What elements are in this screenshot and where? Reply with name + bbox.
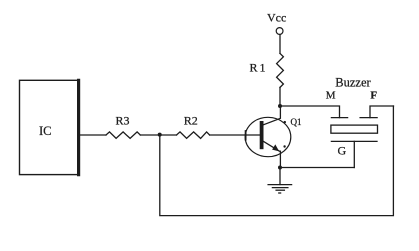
buzzer piezo rectangle <box>331 125 378 133</box>
transistor Q1 base bar <box>260 123 264 147</box>
wire R2 to transistor base <box>210 134 260 136</box>
junction dot R3/R2 <box>158 133 162 137</box>
wire G plate down <box>353 141 355 167</box>
svg-text:Buzzer: Buzzer <box>335 75 371 89</box>
IC box <box>20 80 80 174</box>
wire R3 to junction to R2 <box>140 134 176 136</box>
dot on circle upper right <box>284 121 286 123</box>
svg-text:F: F <box>370 90 377 102</box>
ground line 1 <box>268 184 292 186</box>
ground line 4 <box>279 192 281 194</box>
resistor R1 <box>277 53 284 87</box>
ground line 2 <box>272 187 288 189</box>
resistor R3 <box>106 132 140 139</box>
wire Vcc to R1 <box>279 35 281 54</box>
transistor Q1 emitter arrow <box>272 144 279 151</box>
svg-text:R1: R1 <box>250 61 266 75</box>
svg-text:IC: IC <box>39 124 52 138</box>
svg-text:M: M <box>326 90 336 102</box>
buzzer M plate <box>331 117 347 119</box>
transistor Q1 circle <box>245 117 291 156</box>
junction dot emitter/G/ground <box>278 166 282 170</box>
wire emitter down to junction <box>279 151 281 167</box>
svg-text:G: G <box>338 144 347 158</box>
resistor R2 <box>177 132 210 139</box>
wire IC to R3 <box>80 134 106 136</box>
wire G to emitter junction <box>280 167 354 169</box>
wire collector junction to buzzer M <box>280 106 340 118</box>
svg-text:R3: R3 <box>116 113 130 127</box>
transistor Q1 emitter line <box>263 141 279 151</box>
buzzer G plate <box>331 140 377 142</box>
Vcc terminal circle <box>276 28 283 35</box>
transistor Q1 collector line <box>263 106 280 125</box>
buzzer F plate <box>360 117 377 119</box>
feedback loop wire junction to bottom to F <box>160 106 394 216</box>
buzzer F wire <box>370 106 394 118</box>
svg-text:R2: R2 <box>184 113 198 127</box>
ground line 3 <box>276 189 284 191</box>
wire R1 to collector junction <box>279 87 281 106</box>
wire emitter junction to ground <box>279 168 281 185</box>
svg-text:Vcc: Vcc <box>267 10 286 24</box>
junction dot collector/R1/M <box>278 104 282 108</box>
base terminal tick <box>245 131 247 140</box>
svg-text:Q1: Q1 <box>291 117 302 127</box>
IC box thick right edge <box>77 80 80 174</box>
dot on circle lower right <box>283 145 285 147</box>
